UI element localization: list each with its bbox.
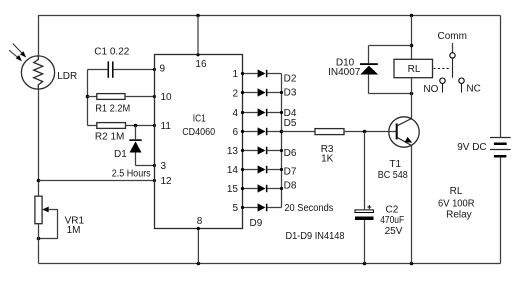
node pin 11 terminal: [153, 124, 156, 127]
light arrow 2 into LDR: [9, 50, 22, 61]
svg-text:NO: NO: [423, 84, 438, 95]
resistor R3 1K: [315, 129, 397, 135]
diode D7: [241, 165, 282, 173]
node junction top rail to pin 16: [196, 14, 200, 18]
node junction R2 wire to D1: [134, 124, 138, 128]
svg-text:6V 100R: 6V 100R: [438, 199, 475, 210]
svg-text:D6: D6: [284, 148, 297, 159]
wire NO stub: [442, 84, 444, 93]
node junction bus D7: [280, 168, 283, 171]
svg-text:CD4060: CD4060: [182, 127, 215, 138]
svg-text:25V: 25V: [385, 226, 403, 237]
node junction left rail to pin 12 wire: [37, 179, 41, 183]
wire relay branch lower to collector: [411, 78, 413, 119]
wire switch lever: [452, 58, 454, 78]
wire D10 bottom horizontal: [369, 93, 412, 95]
svg-text:D3: D3: [284, 88, 297, 99]
wire diode cathode bus: [281, 74, 283, 208]
wire emitter to bottom rail: [411, 146, 413, 264]
svg-text:1K: 1K: [321, 153, 334, 164]
svg-text:LDR: LDR: [57, 71, 77, 82]
wire D10 top horizontal: [369, 45, 412, 47]
wire right rail lower: [500, 158, 502, 264]
node junction relay branch D10 bottom: [410, 92, 414, 96]
resistor R2 1M: [88, 123, 155, 129]
diode D6: [241, 146, 282, 154]
node pin 12 terminal: [153, 179, 156, 182]
node pin 3 terminal: [153, 164, 156, 167]
node junction bus D5 output: [280, 130, 284, 134]
svg-text:IN4007: IN4007: [328, 67, 361, 78]
svg-text:11: 11: [161, 121, 172, 132]
svg-text:5: 5: [232, 203, 238, 214]
wire left rail upper: [38, 16, 40, 57]
node junction bus D3: [280, 91, 283, 94]
node pin 9 terminal: [153, 68, 156, 71]
wire pin 8 to bottom rail: [197, 229, 199, 264]
node junction bottom rail to emitter: [410, 262, 414, 266]
node NC contact: [459, 78, 464, 83]
diode D5: [241, 127, 282, 135]
svg-text:2: 2: [232, 88, 238, 99]
svg-text:20 Seconds: 20 Seconds: [284, 203, 333, 214]
svg-text:1M: 1M: [67, 225, 81, 236]
svg-text:C1 0.22: C1 0.22: [94, 47, 129, 58]
svg-text:BC 548: BC 548: [378, 170, 408, 181]
svg-text:Relay: Relay: [446, 210, 472, 221]
capacitor C2 470uF electrolytic: [355, 132, 374, 264]
node junction top rail to relay branch: [410, 14, 414, 18]
svg-text:D2: D2: [284, 73, 297, 84]
svg-text:15: 15: [227, 184, 239, 195]
svg-text:12: 12: [161, 176, 173, 187]
svg-text:1: 1: [232, 69, 238, 80]
diode D4: [241, 108, 282, 116]
LDR light dependent resistor: [21, 56, 54, 89]
node pin 10 terminal: [153, 95, 156, 98]
svg-text:3: 3: [161, 161, 167, 172]
svg-text:D5: D5: [284, 118, 297, 129]
svg-text:9V DC: 9V DC: [457, 142, 486, 153]
svg-text:2.5 Hours: 2.5 Hours: [112, 168, 151, 179]
wire bus to R3: [282, 131, 316, 133]
svg-text:D1-D9 IN4148: D1-D9 IN4148: [286, 231, 345, 242]
wire pin 12 to left rail: [39, 180, 155, 182]
svg-text:4: 4: [232, 108, 238, 119]
svg-text:R2 1M: R2 1M: [95, 132, 124, 143]
svg-text:10: 10: [161, 92, 173, 103]
wire right rail upper: [500, 16, 502, 138]
svg-text:D8: D8: [284, 181, 297, 192]
wire NC stub: [461, 84, 463, 93]
battery 9V DC: [490, 138, 511, 158]
svg-text:Comm: Comm: [438, 31, 467, 42]
svg-text:13: 13: [227, 146, 239, 157]
svg-text:RL: RL: [408, 64, 421, 75]
diode D10 flyback: [360, 46, 378, 94]
wire bottom rail: [39, 263, 501, 265]
wire Comm stub: [452, 43, 454, 53]
svg-text:8: 8: [197, 216, 203, 227]
node junction bottom rail to pin 8: [197, 262, 201, 266]
node NO contact: [440, 78, 445, 83]
light arrow 1 into LDR: [13, 44, 26, 58]
wire pin 16 to top rail: [197, 16, 199, 55]
node Comm contact: [450, 53, 455, 58]
capacitor C1 0.22: [88, 61, 155, 77]
node junction bus to R1: [86, 95, 90, 99]
node pin 16 terminal: [196, 53, 199, 56]
svg-text:D9: D9: [250, 218, 263, 229]
wire left rail lower: [38, 224, 40, 264]
IC1 CD4060 body: [155, 55, 243, 229]
wire D1 to pin 3: [136, 165, 155, 167]
node junction bus D4: [280, 111, 283, 114]
svg-text:16: 16: [195, 59, 207, 70]
node junction bus D8: [280, 187, 283, 190]
node pin 8 terminal: [197, 227, 200, 230]
svg-text:D1: D1: [114, 149, 127, 160]
wire left rail middle: [38, 89, 40, 196]
svg-text:14: 14: [227, 165, 239, 176]
svg-text:470uF: 470uF: [380, 215, 404, 226]
node junction bottom rail to C2: [363, 262, 367, 266]
diode D2: [241, 69, 282, 77]
node junction base wire to C2: [363, 130, 367, 134]
node junction VR1 wiper to left rail: [37, 237, 41, 241]
wire top rail: [38, 15, 501, 17]
resistor R1 2.2M: [88, 94, 155, 100]
svg-text:C2: C2: [386, 205, 399, 216]
svg-text:6: 6: [232, 127, 238, 138]
diode D1: [129, 126, 141, 166]
node junction bus D6: [280, 149, 283, 152]
svg-text:NC: NC: [466, 84, 480, 95]
svg-text:D7: D7: [284, 167, 297, 178]
relay coil RL box: [394, 59, 433, 77]
wire dashed actuator link: [434, 68, 450, 70]
transistor T1 BC548 NPN: [389, 117, 419, 147]
svg-text:9: 9: [160, 64, 166, 75]
diode D9: [241, 203, 282, 211]
diode D8: [241, 184, 282, 192]
svg-text:RL: RL: [450, 186, 463, 197]
svg-text:R1 2.2M: R1 2.2M: [95, 104, 130, 115]
node junction relay branch D10 top: [410, 44, 414, 48]
potentiometer VR1: [35, 196, 58, 238]
diode D3: [241, 88, 282, 96]
svg-text:T1: T1: [389, 159, 401, 170]
wire relay branch upper: [411, 16, 413, 60]
wire oscillator left bus: [87, 70, 89, 126]
svg-text:IC1: IC1: [193, 114, 206, 125]
